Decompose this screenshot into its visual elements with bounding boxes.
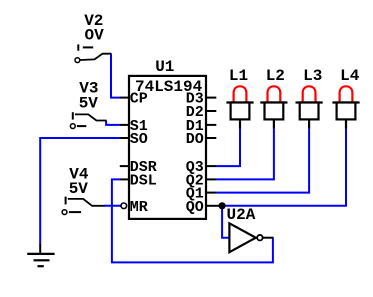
switch V3 — [70, 112, 106, 128]
node Q0 junction — [219, 202, 226, 209]
LED L3 — [296, 86, 323, 128]
svg-text:CP: CP — [130, 91, 148, 108]
LED L4 — [332, 86, 359, 128]
pin CP stub — [120, 97, 129, 99]
ground — [27, 244, 54, 266]
svg-text:SO: SO — [130, 131, 148, 148]
LED L1 — [226, 86, 253, 128]
svg-text:QO: QO — [186, 199, 204, 216]
wire Q3 to L1 — [216, 129, 241, 167]
pin Q0 stub — [206, 205, 219, 207]
pin D0 stub — [206, 137, 216, 139]
pin S1 stub — [120, 124, 129, 126]
pin MR bubble — [121, 203, 127, 209]
svg-text:L4: L4 — [340, 67, 360, 85]
svg-text:U1: U1 — [155, 58, 174, 76]
wire V4 to MR — [104, 205, 121, 207]
wire V3 to S1 — [106, 121, 120, 125]
svg-text:5V: 5V — [79, 94, 99, 112]
wire Q1 to L3 — [216, 129, 310, 193]
wire Q0 to L4 — [219, 129, 347, 206]
LED L2 — [260, 86, 287, 128]
svg-text:MR: MR — [130, 199, 148, 216]
svg-text:L2: L2 — [266, 67, 285, 85]
switch V4 — [62, 197, 104, 215]
svg-text:U2A: U2A — [227, 206, 256, 224]
wire V2 to CP — [111, 54, 121, 98]
wire S0 to ground — [40, 138, 120, 245]
pin Q3 stub — [206, 165, 216, 167]
pin D3 stub — [206, 97, 216, 99]
wire U2A output to DSL feedback — [112, 179, 273, 262]
wire Q2 to L2 — [216, 129, 274, 180]
pin Q2 stub — [206, 178, 216, 180]
svg-text:DSL: DSL — [130, 172, 157, 189]
inverter U2A — [229, 223, 273, 252]
pin DSL stub — [120, 178, 129, 180]
svg-text:OV: OV — [84, 27, 104, 45]
pin D2 stub — [206, 110, 216, 112]
pin S0 stub — [120, 137, 129, 139]
pin D1 stub — [206, 124, 216, 126]
pin Q1 stub — [206, 192, 216, 194]
wire Q0 to U2A input — [222, 206, 229, 238]
IC U1 74LS194 shift register body — [129, 76, 206, 219]
svg-text:DO: DO — [186, 131, 204, 148]
switch V2 — [75, 44, 112, 62]
svg-text:L1: L1 — [229, 67, 248, 85]
svg-text:L3: L3 — [303, 67, 322, 85]
svg-text:5V: 5V — [69, 180, 89, 198]
pin DSR stub — [120, 165, 129, 167]
